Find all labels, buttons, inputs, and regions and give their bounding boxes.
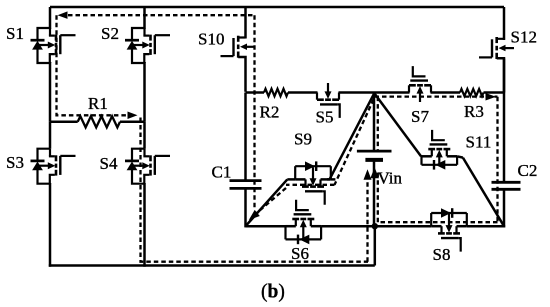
label C2 <box>518 161 538 180</box>
wire right rail upper <box>503 7 506 40</box>
dashed diag S9 to corner <box>255 188 286 215</box>
label S5 <box>316 108 334 127</box>
wire left rail upper <box>49 7 52 29</box>
label S7 <box>411 107 429 126</box>
svg-text:S3: S3 <box>6 153 24 172</box>
svg-text:C1: C1 <box>212 163 232 182</box>
transistor S5 <box>317 83 340 118</box>
transistor S11 <box>422 130 458 170</box>
svg-text:S1: S1 <box>6 24 24 43</box>
svg-text:S6: S6 <box>291 244 309 263</box>
wire right rail mid <box>503 59 506 183</box>
arrow dashed R3 right <box>486 93 497 101</box>
label S10 <box>198 30 224 49</box>
wire diag peak to S9 <box>327 93 375 180</box>
wire S1 to R1 node <box>49 62 52 122</box>
wire S6 to Vin node <box>321 225 376 228</box>
transistor S7 <box>409 66 431 102</box>
label S12 <box>511 28 537 47</box>
wire left rail lower <box>49 183 52 267</box>
label S1 <box>6 24 24 43</box>
label Vin <box>378 169 403 188</box>
wire diag S9 to C1 corner <box>246 179 288 226</box>
svg-text:S7: S7 <box>411 107 429 126</box>
arrow dashed into Vin- left <box>364 169 372 180</box>
svg-text:S9: S9 <box>294 130 312 149</box>
transistor S6 <box>286 200 322 244</box>
wire top bus <box>50 6 504 9</box>
transistor S4 <box>125 122 170 184</box>
wire Vin node to S8 <box>375 225 431 228</box>
label R3 <box>464 102 484 121</box>
wire C1 top branch <box>244 93 247 181</box>
wire peak to S7 <box>375 91 410 94</box>
wire diag peak to S11 <box>375 94 422 157</box>
wire R1 right <box>120 121 145 124</box>
svg-text:S2: S2 <box>101 24 119 43</box>
svg-text:S8: S8 <box>433 245 451 264</box>
svg-text:S10: S10 <box>198 30 224 49</box>
wire R3 to right rail <box>484 91 505 94</box>
resistor R1 <box>78 116 120 127</box>
label S9 <box>294 130 312 149</box>
wire S8 to right corner <box>467 225 505 228</box>
transistor S8 <box>431 208 467 251</box>
wire S2 to R1 node <box>143 62 146 122</box>
dashed S9 row <box>286 184 335 186</box>
wire R2 to S5 <box>288 91 318 94</box>
dashed diag peak to S9 <box>335 100 374 185</box>
node Vin- junction <box>372 223 378 229</box>
wire S7 to R3 <box>431 91 461 94</box>
dashed path S8 row <box>378 221 498 223</box>
label C1 <box>212 163 232 182</box>
resistor R2 <box>264 89 288 96</box>
transistor S9 <box>295 161 331 204</box>
wire Vin- lead <box>373 160 376 226</box>
wire S9 leads <box>287 178 335 181</box>
dashed path to Vin- <box>366 180 368 262</box>
wire R1 left <box>50 121 78 124</box>
source Vin battery <box>357 151 392 160</box>
label S3 <box>6 153 24 172</box>
capacitor C1 <box>230 181 262 189</box>
dashed path S10 C1 drop <box>253 15 255 209</box>
svg-text:R3: R3 <box>464 102 484 121</box>
svg-text:C2: C2 <box>518 161 538 180</box>
arrow dashed top left <box>58 11 68 19</box>
arrow Vin current up <box>370 167 379 178</box>
svg-text:(b): (b) <box>261 282 285 303</box>
label R1 <box>88 94 108 113</box>
wire diag S11 to right corner <box>463 158 504 227</box>
dashed path S4 branch <box>141 118 369 262</box>
label (b) <box>261 282 285 303</box>
svg-text:R2: R2 <box>260 103 280 122</box>
wire mid bottom left <box>246 225 286 228</box>
svg-text:Vin: Vin <box>378 169 403 188</box>
wire S2 top lead <box>143 7 146 29</box>
wire S5 to peak node <box>339 91 375 94</box>
transistor S10 <box>221 36 256 92</box>
capacitor C2 <box>492 182 521 189</box>
svg-text:S12: S12 <box>511 28 537 47</box>
dashed path top <box>68 14 255 16</box>
wire R2 left stub <box>246 91 265 94</box>
label S11 <box>466 133 492 152</box>
svg-text:S4: S4 <box>100 154 118 173</box>
wire peak to Vin+ <box>373 93 376 152</box>
wire bottom bus <box>49 264 375 267</box>
label R2 <box>260 103 280 122</box>
dashed path peak right <box>375 95 498 97</box>
transistor S12 <box>479 37 514 93</box>
svg-text:S5: S5 <box>316 108 334 127</box>
arrow dashed into C1 corner <box>249 210 260 220</box>
dashed path S1 branch <box>57 15 127 115</box>
dashed path peak to Vin+ <box>377 97 379 152</box>
wire right rail lower <box>503 189 506 227</box>
label S4 <box>100 154 118 173</box>
transistor S3 <box>31 122 76 184</box>
svg-text:S11: S11 <box>466 133 492 152</box>
resistor R3 <box>460 89 484 96</box>
label S2 <box>101 24 119 43</box>
wire S10 top lead <box>244 7 247 39</box>
label S8 <box>433 245 451 264</box>
dashed path right drop <box>496 97 498 222</box>
wire S11 leads <box>421 156 463 157</box>
transistor S1 <box>31 28 76 63</box>
wire S4 bottom lead <box>143 183 146 267</box>
arrow dashed R1 right <box>128 112 138 120</box>
wire bottom bus riser <box>374 226 377 265</box>
label S6 <box>291 244 309 263</box>
wire C1 bottom branch <box>244 188 247 227</box>
transistor S2 <box>125 28 170 63</box>
svg-text:R1: R1 <box>88 94 108 113</box>
dashed path to Vin- right <box>377 172 379 222</box>
